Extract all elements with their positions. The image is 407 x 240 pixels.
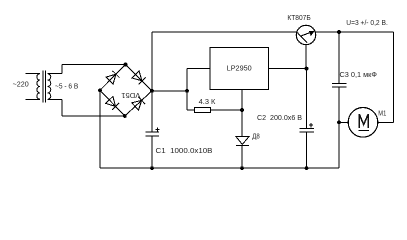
svg-text:М1: М1 xyxy=(378,109,386,118)
capacitor C3 xyxy=(338,32,340,84)
transformer T1 core xyxy=(42,71,44,103)
svg-text:VD51: VD51 xyxy=(121,91,140,100)
diode bridge VD5 bottom-left arm xyxy=(100,90,125,116)
transformer T1 primary winding xyxy=(37,74,40,100)
wire bottom rail xyxy=(100,167,339,169)
node C1 ground xyxy=(150,166,154,170)
svg-text:~220: ~220 xyxy=(13,80,29,89)
node C3 top xyxy=(337,30,341,34)
wire bridge right vertex to regulator input xyxy=(152,90,187,92)
wire secondary top to bridge xyxy=(48,73,62,75)
capacitor C1 xyxy=(151,91,153,132)
diode bridge VD5 top-left arm xyxy=(100,65,126,91)
wire output rail xyxy=(315,31,393,33)
wire output right drop xyxy=(393,32,395,122)
wire LP2950 input pin xyxy=(187,68,210,70)
node motor junction xyxy=(337,120,341,124)
svg-text:С1 1000.0х10В: С1 1000.0х10В xyxy=(156,146,213,155)
node D8 ground xyxy=(240,166,244,170)
wire top rail xyxy=(152,31,297,33)
node bridge right xyxy=(150,89,154,93)
wire motor right lead xyxy=(378,121,394,123)
wire LP2950 output pin xyxy=(269,68,307,70)
node resistor junction xyxy=(240,108,244,112)
wire bridge left vertex down xyxy=(99,90,101,168)
wire secondary bottom to bridge xyxy=(48,98,62,100)
capacitor C2 plus sign xyxy=(309,124,313,126)
capacitor C1 plus sign xyxy=(155,129,159,131)
node C2 top junction xyxy=(305,67,309,71)
wire input riser x187 xyxy=(186,69,188,110)
wire LP2950 gnd pin down xyxy=(241,90,243,137)
svg-text:КТ807Б: КТ807Б xyxy=(287,13,311,22)
resistor R1 4.3K xyxy=(187,109,195,111)
node C2 ground xyxy=(305,166,309,170)
node bridge left xyxy=(98,88,102,92)
svg-text:Д8: Д8 xyxy=(252,131,259,140)
node bridge top xyxy=(124,63,128,67)
svg-text:С2 200.0х6 В: С2 200.0х6 В xyxy=(257,113,302,122)
wire bridge right vertex up to top rail xyxy=(151,32,153,91)
motor M1 xyxy=(339,121,348,123)
svg-text:4.3 К: 4.3 К xyxy=(199,97,217,106)
svg-text:С3 0,1 мкФ: С3 0,1 мкФ xyxy=(340,70,378,79)
op-amp regulator U1 LP2950 box xyxy=(210,48,269,90)
wire transistor base from rail xyxy=(297,32,299,34)
svg-text:U=3 +/- 0,2 В.: U=3 +/- 0,2 В. xyxy=(346,18,388,27)
transistor Q1 KT807B xyxy=(296,25,315,44)
transformer T1 secondary winding xyxy=(48,74,51,100)
svg-text:LP2950: LP2950 xyxy=(227,63,252,72)
capacitor C2 xyxy=(306,69,308,129)
node bridge bottom xyxy=(123,114,127,118)
diode bridge VD5 bottom-right arm xyxy=(125,91,152,116)
wire primary bottom lead xyxy=(26,98,41,100)
node regulator input junction xyxy=(185,89,189,93)
wire transistor bottom lead xyxy=(305,44,307,68)
diode bridge VD5 top-right arm xyxy=(126,65,153,91)
wire primary top lead xyxy=(26,73,41,75)
diode D8 xyxy=(236,137,249,145)
svg-text:~5 - 6 В: ~5 - 6 В xyxy=(55,81,78,90)
